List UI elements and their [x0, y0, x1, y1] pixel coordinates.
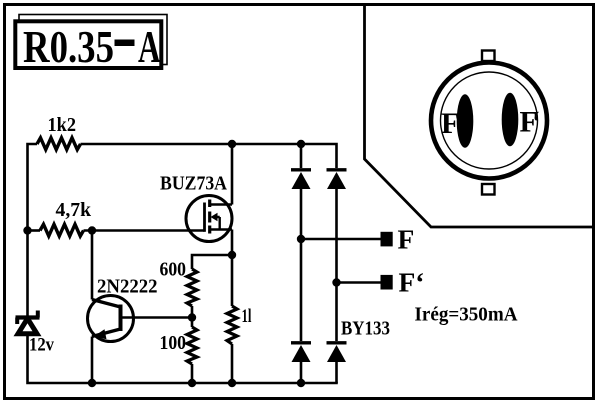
svg-text:Irég=350mA: Irég=350mA — [415, 304, 519, 326]
svg-text:F: F — [441, 107, 459, 140]
transistor collector lead — [92, 300, 121, 308]
terminal F' square — [381, 275, 393, 290]
node bottom rail / 100 — [188, 379, 196, 387]
wire diode column B — [335, 189, 338, 383]
wire top rail right — [81, 144, 337, 168]
socket inner circle — [441, 72, 538, 169]
diode D2 bar — [327, 168, 347, 171]
svg-text:600: 600 — [160, 259, 187, 281]
node F tap — [297, 235, 305, 243]
svg-text:A: A — [138, 21, 161, 72]
svg-text:1k2: 1k2 — [48, 114, 77, 136]
diode D2 triangle — [327, 172, 346, 189]
socket top tab — [482, 51, 495, 62]
diode D3 triangle — [292, 345, 311, 362]
title dash — [115, 40, 135, 47]
socket pin F — [457, 94, 474, 148]
svg-text:BUZ73A: BUZ73A — [160, 173, 227, 195]
diode D3 bar — [291, 341, 311, 344]
node top rail / diode A — [297, 140, 305, 148]
socket pin F' — [502, 93, 519, 147]
wire F' tap — [337, 281, 382, 284]
wire top rail left — [28, 144, 38, 316]
zener triangle — [18, 319, 37, 334]
wire collector drop — [91, 231, 94, 300]
svg-text:4,7k: 4,7k — [56, 199, 92, 221]
transistor emitter arrow — [94, 329, 107, 339]
inductor L2 100 — [187, 327, 197, 364]
inductor L1 600 — [187, 269, 197, 306]
mosfet gate plate — [203, 203, 206, 232]
mosfet U1 BUZ73A circle — [186, 196, 232, 242]
wire 1l to bottom rail — [231, 344, 234, 383]
zener diode Z1 bar — [16, 315, 40, 319]
inductor L3 1l — [227, 306, 237, 344]
node top rail / drain — [228, 140, 236, 148]
title box — [15, 21, 161, 68]
node bottom rail / diode A — [297, 379, 305, 387]
svg-text:12v: 12v — [29, 335, 54, 356]
wire diode column A — [300, 144, 303, 383]
wire to coil 1l — [231, 255, 234, 306]
mosfet channel top dash — [208, 200, 211, 208]
mosfet channel mid dash — [208, 212, 211, 223]
svg-text:R0.35: R0.35 — [23, 21, 114, 72]
panel divider — [365, 4, 595, 227]
wire left rail lower — [28, 335, 338, 383]
diode D1 triangle — [292, 172, 311, 189]
svg-text:BY133: BY133 — [341, 318, 390, 340]
node bottom rail / 1l — [228, 379, 236, 387]
transistor base bar — [119, 305, 123, 332]
svg-text:F‘: F‘ — [399, 267, 425, 298]
transistor base lead — [121, 316, 193, 319]
wire drain drop — [231, 144, 234, 205]
socket outer circle — [431, 63, 547, 179]
svg-text:1l: 1l — [242, 306, 252, 327]
node F' tap — [332, 278, 340, 286]
svg-text:F: F — [398, 224, 415, 255]
node bottom rail / emitter — [88, 379, 96, 387]
wire gate lead — [84, 229, 205, 232]
wire between coils — [191, 306, 194, 327]
diode D4 triangle — [327, 345, 346, 362]
socket bottom tab — [482, 184, 495, 195]
terminal F square — [381, 232, 393, 247]
zener left hook — [15, 318, 19, 325]
wire 4,7k left stub — [28, 229, 41, 232]
resistor R2 4,7k — [40, 224, 84, 236]
transistor emitter lead — [92, 329, 121, 337]
node left rail / 4,7k — [23, 226, 31, 234]
svg-text:‘: ‘ — [533, 106, 540, 139]
wire emitter drop — [91, 337, 94, 384]
diode D4 bar — [327, 341, 347, 344]
zener right hook — [36, 311, 40, 318]
mosfet body stub — [215, 217, 220, 230]
node 4,7k / collector — [88, 226, 96, 234]
mosfet source lead — [210, 228, 232, 231]
mosfet channel bottom dash — [208, 226, 211, 234]
diode D1 bar — [291, 168, 311, 171]
mosfet body arrow — [211, 213, 218, 221]
transistor Q1 2N2222 circle — [88, 296, 134, 342]
wire source to coils — [192, 255, 232, 269]
node base / coils — [188, 313, 196, 321]
svg-text:100: 100 — [160, 332, 187, 354]
node source / coils — [228, 251, 236, 259]
resistor R1 1k2 — [37, 138, 81, 150]
mosfet drain lead — [210, 203, 232, 206]
svg-text:2N2222: 2N2222 — [97, 276, 158, 298]
wire source drop — [231, 230, 234, 256]
title box shadow — [19, 15, 167, 65]
wire 100 to bottom rail — [191, 364, 194, 383]
wire F tap — [301, 238, 381, 241]
